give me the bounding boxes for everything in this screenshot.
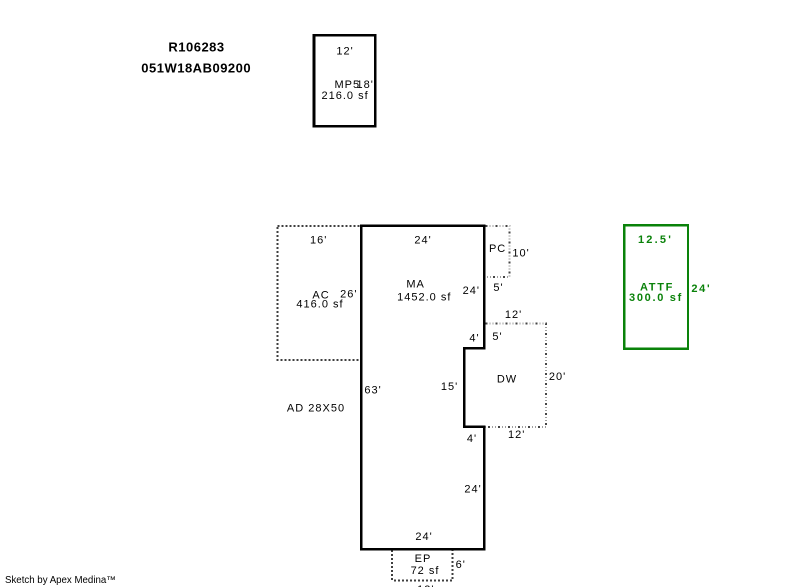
svg-text:12': 12' [508,429,525,441]
svg-text:20': 20' [549,371,566,383]
svg-text:300.0 sf: 300.0 sf [629,292,683,304]
svg-text:Sketch by Apex Medina™: Sketch by Apex Medina™ [5,575,116,586]
svg-text:416.0 sf: 416.0 sf [296,299,343,311]
svg-text:5': 5' [492,331,502,343]
svg-text:DW: DW [497,373,517,385]
svg-text:10': 10' [512,247,529,259]
svg-text:AD 28X50: AD 28X50 [287,403,345,415]
svg-text:051W18AB09200: 051W18AB09200 [141,60,251,75]
svg-text:24': 24' [414,235,431,247]
svg-text:72 sf: 72 sf [411,565,440,577]
svg-text:24': 24' [415,531,432,543]
svg-text:16': 16' [310,234,327,246]
svg-text:12': 12' [336,46,353,58]
svg-text:PC: PC [489,243,506,255]
svg-text:24': 24' [691,283,711,295]
MP5 rect outline [314,35,375,126]
EP dotted outline [392,549,452,580]
svg-text:5': 5' [493,282,503,294]
svg-text:4': 4' [469,333,479,345]
PC dash-dot outline [483,226,510,277]
svg-text:12': 12' [505,309,522,321]
svg-text:1452.0 sf: 1452.0 sf [397,292,451,304]
svg-text:R106283: R106283 [168,39,224,54]
MA solid outline [361,226,484,550]
svg-text:24': 24' [463,285,480,297]
AC dotted outline [278,226,361,360]
svg-text:12.5': 12.5' [638,234,673,246]
svg-text:216.0 sf: 216.0 sf [322,90,369,102]
svg-text:15': 15' [441,381,458,393]
svg-text:63': 63' [364,384,381,396]
DW dash-dot outline [486,324,547,427]
ATTF green outline [624,225,688,349]
svg-text:24': 24' [464,484,481,496]
svg-text:EP: EP [415,553,432,565]
svg-text:MA: MA [406,278,425,290]
svg-text:4': 4' [467,433,477,445]
svg-text:6': 6' [456,559,466,571]
